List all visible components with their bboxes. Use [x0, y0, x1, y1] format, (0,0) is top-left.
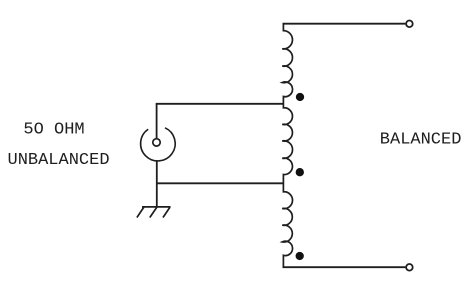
transformer winding column: L1 top, L2 middle, L3 bottom (4 turns each) [282, 24, 292, 268]
wire: top balanced output lead [283, 23, 406, 25]
svg-text:BALANCED: BALANCED [380, 131, 462, 150]
svg-text:UNBALANCED: UNBALANCED [8, 151, 110, 170]
terminal: balanced output top (open circle) [406, 21, 413, 28]
phase dot: winding L3 [296, 252, 304, 260]
wire: bottom balanced output lead [283, 266, 406, 268]
terminal: balanced output bottom (open circle) [406, 264, 413, 271]
phase dot: winding L2 [296, 168, 304, 176]
connector J1: coax center pin (small circle) [153, 139, 160, 146]
wire: unbalanced input return lead to winding tap (ground node) [157, 182, 284, 184]
connector J1: coax shield (large circle with top gap) [141, 128, 176, 161]
wire: node A down to connector center pin [156, 104, 158, 139]
svg-text:5O OHM: 5O OHM [23, 121, 84, 140]
wire: unbalanced input hot lead to winding tap (node A) [156, 103, 284, 105]
wire: connector shield down to ground junction [156, 161, 158, 207]
phase dot: winding L1 [296, 93, 304, 101]
ground: chassis ground symbol [137, 207, 171, 218]
